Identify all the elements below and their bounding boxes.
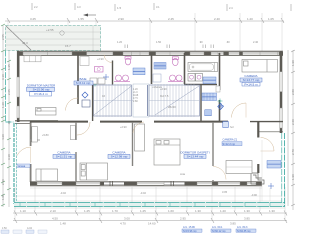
camera2 bed bbox=[80, 163, 108, 180]
dimension ticks top bbox=[7, 3, 291, 23]
svg-text:-0.90: -0.90 bbox=[251, 193, 257, 197]
svg-text:2.60: 2.60 bbox=[291, 119, 295, 125]
svg-text:+5.80: +5.80 bbox=[42, 133, 49, 137]
stair small blue box bbox=[205, 110, 212, 116]
interior wall bath bottom horizontal bbox=[78, 82, 94, 84]
corridor radiator bbox=[202, 93, 217, 101]
svg-text:terasa: terasa bbox=[18, 164, 26, 168]
svg-text:S=15.96 mp: S=15.96 mp bbox=[183, 230, 197, 233]
step wall right inner bbox=[259, 131, 283, 133]
interior wall master/bath vertical bbox=[77, 53, 79, 104]
svg-text:1.25: 1.25 bbox=[84, 209, 90, 213]
svg-text:1.90: 1.90 bbox=[291, 60, 295, 66]
window glazing lines top bbox=[23, 53, 279, 55]
bottom dimension line 2 bbox=[13, 219, 287, 221]
right dimension line bbox=[292, 50, 294, 210]
teal terrace boundary right bbox=[282, 133, 285, 206]
room label camera top-right bbox=[240, 74, 262, 86]
dimension text right rotated bbox=[291, 60, 295, 180]
teal cross marker bbox=[218, 99, 223, 104]
svg-text:.90: .90 bbox=[7, 120, 11, 125]
dimension ticks right bbox=[291, 50, 295, 206]
svg-text:9x17.5: 9x17.5 bbox=[160, 94, 169, 98]
teal cross bath corner bbox=[93, 82, 98, 87]
svg-text:4.20: 4.20 bbox=[1, 134, 5, 140]
spine wall horizontal bbox=[30, 121, 88, 123]
teal terrace boundary bottom bbox=[14, 203, 285, 207]
lower-left exterior wall vertical bbox=[30, 121, 32, 182]
landing blue text stack bbox=[133, 88, 139, 103]
misc small blue texts in plan bbox=[42, 57, 234, 176]
svg-text:S=12.2 mp: S=12.2 mp bbox=[223, 142, 236, 146]
bath1 radiator bbox=[133, 68, 145, 75]
svg-text:2.05: 2.05 bbox=[7, 89, 11, 95]
extension lines vertical bottom bbox=[15, 187, 285, 221]
svg-text:S=13.44 mp: S=13.44 mp bbox=[187, 155, 204, 159]
terrace tiny text bbox=[22, 28, 71, 48]
terrace hatched area top-left bbox=[6, 26, 101, 51]
left exterior wall bbox=[17, 51, 20, 122]
interior wall laundry bottom bbox=[184, 84, 217, 86]
interior wall corridor right vertical bbox=[219, 53, 221, 90]
bath2 toilet bbox=[172, 57, 178, 66]
small marker box lower stairs bbox=[82, 100, 90, 107]
svg-text:2.80: 2.80 bbox=[133, 100, 138, 103]
svg-text:4.3: 4.3 bbox=[77, 5, 81, 9]
stairwell right wall bbox=[200, 85, 202, 122]
svg-text:1.55: 1.55 bbox=[78, 17, 84, 21]
svg-text:1.25: 1.25 bbox=[140, 209, 146, 213]
laundry wardrobe bbox=[188, 63, 218, 72]
dimension ticks bottom bbox=[14, 211, 287, 224]
bottom-left tiny blue text bbox=[1, 227, 47, 233]
svg-text:P=16.4 m: P=16.4 m bbox=[34, 92, 48, 96]
svg-text:+2.90: +2.90 bbox=[120, 125, 127, 129]
room label dormitor oaspeti bbox=[180, 150, 209, 158]
svg-text:1.05: 1.05 bbox=[1, 194, 5, 200]
svg-text:1.20: 1.20 bbox=[220, 209, 226, 213]
bath1 shower box bbox=[80, 57, 89, 66]
terrace small square bbox=[60, 31, 64, 35]
svg-text:+2.90: +2.90 bbox=[97, 57, 104, 61]
room label baie bbox=[74, 77, 93, 85]
left dimension line inner bbox=[8, 25, 10, 207]
laundry washer boxes bbox=[188, 74, 203, 82]
svg-text:3.25: 3.25 bbox=[30, 17, 36, 21]
corridor small boxes bbox=[216, 86, 220, 92]
svg-text:3.85: 3.85 bbox=[230, 222, 236, 226]
top exterior wall bbox=[17, 50, 283, 52]
svg-text:hol: hol bbox=[230, 125, 234, 129]
room label dormitor master bbox=[27, 84, 56, 97]
svg-text:A.U. 15.96: A.U. 15.96 bbox=[183, 226, 195, 229]
camera1 bed bbox=[36, 169, 58, 181]
svg-text:1.30: 1.30 bbox=[195, 209, 201, 213]
left wall window boxes bbox=[17, 77, 20, 118]
window glazing lines bottom bbox=[37, 183, 256, 185]
room label camera1 bbox=[53, 150, 75, 158]
bath1 double sink bbox=[114, 75, 130, 82]
teal terrace boundary upper-left bbox=[6, 51, 14, 123]
svg-text:A.U. 60.1: A.U. 60.1 bbox=[212, 226, 223, 229]
dimension text bottom row2 bbox=[52, 217, 250, 226]
svg-text:S=15.96 mp: S=15.96 mp bbox=[33, 88, 50, 92]
bath1 toilet bbox=[125, 57, 131, 65]
window sill line bottom outside bbox=[30, 187, 262, 189]
svg-text:1.30: 1.30 bbox=[244, 209, 250, 213]
interior wall bath2 right vertical bbox=[184, 53, 186, 84]
stair flight 2 bbox=[149, 84, 200, 117]
svg-text:1.30: 1.30 bbox=[269, 209, 275, 213]
blue diamond symbol bbox=[82, 92, 88, 98]
svg-text:1:50: 1:50 bbox=[2, 227, 7, 230]
svg-text:2.90: 2.90 bbox=[118, 17, 124, 21]
camera1 wardrobe east bbox=[70, 126, 75, 140]
svg-text:1.05: 1.05 bbox=[268, 17, 274, 21]
camera1 door arc bbox=[17, 147, 31, 156]
small label right hall bbox=[222, 138, 242, 146]
svg-text:3.00: 3.00 bbox=[124, 217, 130, 221]
svg-text:2.4: 2.4 bbox=[229, 6, 233, 10]
hall small blue box bbox=[223, 122, 229, 128]
dimension ticks left bbox=[1, 24, 11, 206]
svg-text:cota: cota bbox=[180, 172, 185, 176]
right exterior wall upper bbox=[280, 51, 283, 133]
corridor blue diamond bbox=[218, 104, 224, 110]
svg-text:2.95: 2.95 bbox=[180, 217, 186, 221]
svg-text:S=60.12 mp: S=60.12 mp bbox=[212, 230, 226, 233]
svg-text:+2.55: +2.55 bbox=[46, 28, 54, 32]
svg-text:CAMERA Z1: CAMERA Z1 bbox=[223, 138, 238, 142]
window tick pairs above top wall bbox=[79, 43, 214, 48]
terrace roof diagonal bbox=[6, 26, 31, 50]
svg-text:-0.02: -0.02 bbox=[60, 191, 66, 195]
svg-text:1.35: 1.35 bbox=[7, 64, 11, 70]
svg-text:1.10: 1.10 bbox=[20, 209, 26, 213]
svg-text:1.50: 1.50 bbox=[156, 40, 162, 44]
bath1 vanity boxes bbox=[90, 78, 105, 84]
bath2 double sink bbox=[168, 75, 183, 82]
right dimension line inner bbox=[287, 50, 289, 206]
terrace steps bottom right bbox=[251, 173, 264, 184]
small label left terrace bbox=[17, 164, 30, 168]
teal terrace boundary left bbox=[14, 123, 17, 204]
svg-text:4.50: 4.50 bbox=[52, 217, 58, 221]
svg-text:3.1: 3.1 bbox=[156, 5, 160, 9]
svg-text:3.85: 3.85 bbox=[244, 217, 250, 221]
svg-text:14.60: 14.60 bbox=[148, 222, 156, 226]
terrace right radiator bbox=[267, 161, 281, 169]
svg-text:1.20: 1.20 bbox=[1, 102, 5, 108]
dimension text left rotated bbox=[1, 34, 11, 200]
interior wall bath2 left vertical bbox=[151, 53, 153, 84]
svg-text:2.70: 2.70 bbox=[291, 149, 295, 155]
stairwell left wall bbox=[92, 85, 94, 122]
camera2 door arc bbox=[77, 122, 90, 135]
svg-text:2.30: 2.30 bbox=[1, 179, 5, 185]
extension lines vertical top bbox=[8, 13, 282, 51]
svg-text:3.10: 3.10 bbox=[1, 74, 5, 80]
right terrace faint lines bbox=[262, 140, 270, 201]
svg-text:1.90: 1.90 bbox=[291, 174, 295, 180]
camera top-right bed bbox=[242, 60, 278, 73]
svg-text:1.70: 1.70 bbox=[112, 209, 118, 213]
svg-text:2.80: 2.80 bbox=[291, 89, 295, 95]
glazed openings thin bbox=[104, 182, 185, 184]
bath2 cabinet bbox=[153, 74, 161, 82]
interior wall camera2/dormitor vertical bbox=[132, 122, 134, 166]
interior wall camera1/camera2 vertical bbox=[75, 122, 77, 140]
svg-text:1.60: 1.60 bbox=[168, 209, 174, 213]
stair text bbox=[102, 94, 176, 109]
laundry radiator bbox=[203, 77, 216, 84]
dimension text top bbox=[30, 5, 274, 21]
lower-right door arc bbox=[261, 138, 275, 152]
svg-text:3.10: 3.10 bbox=[7, 154, 11, 160]
dormitor door arc bbox=[133, 122, 144, 133]
svg-text:S=11.51 mp: S=11.51 mp bbox=[56, 155, 73, 159]
svg-text:S=84.35 mp: S=84.35 mp bbox=[237, 230, 251, 233]
svg-text:.60: .60 bbox=[226, 40, 230, 44]
svg-text:-0.02: -0.02 bbox=[140, 191, 146, 195]
terrace floor line bottom bbox=[17, 195, 282, 197]
svg-text:4.70: 4.70 bbox=[120, 222, 126, 226]
north arrow marker bbox=[83, 14, 88, 17]
landing wall bbox=[147, 85, 149, 116]
bath1 tub bbox=[95, 67, 104, 73]
top dimension line overall bbox=[5, 20, 284, 22]
svg-text:A.U. 84.3: A.U. 84.3 bbox=[237, 226, 248, 229]
dimension text bottom row1 bbox=[20, 209, 275, 213]
svg-text:1.5: 1.5 bbox=[117, 6, 122, 10]
svg-text:2.2: 2.2 bbox=[34, 5, 38, 9]
stair landing bbox=[133, 84, 149, 117]
svg-text:P=14.9 m: P=14.9 m bbox=[244, 82, 258, 86]
svg-text:2.40: 2.40 bbox=[214, 17, 220, 21]
svg-text:A.02: A.02 bbox=[27, 227, 33, 230]
terrace inner lines bbox=[6, 26, 100, 50]
bottom legend blue texts bbox=[182, 226, 256, 233]
stair flight 1 bbox=[94, 84, 134, 117]
svg-text:15.7: 15.7 bbox=[65, 44, 71, 48]
dormitor oaspeti bed bbox=[154, 139, 180, 165]
svg-text:3.05: 3.05 bbox=[222, 190, 228, 194]
hall west door arc bbox=[213, 167, 226, 180]
svg-text:16: 16 bbox=[102, 94, 106, 98]
svg-text:28x30: 28x30 bbox=[168, 105, 176, 109]
big door arc hall bbox=[232, 103, 247, 118]
svg-text:1.20: 1.20 bbox=[247, 17, 253, 21]
svg-text:1.48: 1.48 bbox=[60, 222, 66, 226]
svg-text:45.0: 45.0 bbox=[22, 41, 28, 45]
svg-text:2.10: 2.10 bbox=[50, 209, 56, 213]
scattered blue plus markers bbox=[103, 74, 274, 189]
terrace teal dashed border bbox=[6, 26, 101, 51]
terrace strip tiny texts bbox=[60, 190, 257, 197]
master bed bbox=[36, 108, 57, 116]
left dimension line outer bbox=[2, 25, 4, 207]
svg-text:.90: .90 bbox=[199, 40, 203, 44]
wardrobe room3 bbox=[135, 124, 145, 151]
camera1 wardrobe west bbox=[32, 127, 38, 143]
step wall lower-left bbox=[15, 120, 58, 122]
top wall window boxes bbox=[23, 52, 279, 55]
bottom exterior wall bbox=[30, 180, 262, 182]
svg-text:1.20: 1.20 bbox=[117, 40, 123, 44]
bath2 radiator bbox=[154, 63, 166, 70]
lower-right exterior wall vertical bbox=[257, 122, 259, 173]
room label camera2 bbox=[108, 150, 130, 158]
svg-text:2.40: 2.40 bbox=[253, 40, 259, 44]
top wall solid piers bbox=[17, 52, 283, 55]
bath1 dividing wall bbox=[112, 61, 114, 85]
svg-text:S=6.11 mp: S=6.11 mp bbox=[76, 81, 91, 85]
svg-text:2.55: 2.55 bbox=[1, 34, 5, 40]
master closet bbox=[24, 56, 41, 62]
svg-text:S=12.98 mp: S=12.98 mp bbox=[111, 155, 128, 159]
master door arc bbox=[66, 98, 79, 111]
svg-text:2.45: 2.45 bbox=[168, 17, 174, 21]
interior wall dormitor/hol vertical bbox=[212, 122, 214, 166]
bath1 door arc top bbox=[104, 55, 112, 63]
lower-right desk bbox=[226, 161, 252, 174]
svg-text:+2.90: +2.90 bbox=[160, 87, 167, 91]
bottom dimension line 1 bbox=[13, 212, 287, 214]
